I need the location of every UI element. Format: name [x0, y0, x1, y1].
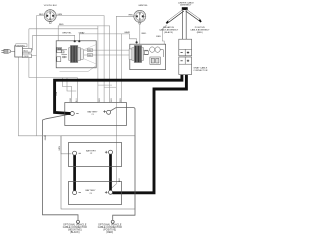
- battery B1 top labels: [70, 97, 122, 102]
- wire GRN/YEL to U1 terminal 1: [33, 35, 75, 50]
- wire battery1 positive tap to positive vehicle connector: [109, 108, 135, 221]
- wire bundle 1 down: [97, 26, 99, 103]
- negative jumper cable: [166, 10, 183, 23]
- svg-text:GRAY: GRAY: [79, 32, 86, 35]
- wire conn2 left down to battery 3 positive: [110, 16, 133, 191]
- wire RED row: [58, 26, 109, 103]
- svg-text:ASSEMBLY: ASSEMBLY: [180, 4, 192, 7]
- wire negative lug to U2: [162, 25, 166, 44]
- wire hang from gray row: [121, 34, 123, 103]
- device box U1: [56, 41, 96, 68]
- svg-text:(BLACK): (BLACK): [164, 31, 173, 34]
- battery B1 positive terminal: [107, 110, 111, 114]
- U1 terminal 2: [78, 40, 80, 42]
- svg-text:(BLACK): (BLACK): [70, 231, 80, 234]
- svg-text:BATTERY: BATTERY: [88, 110, 98, 113]
- heavy cable terminal block to battery1 negative: [55, 75, 182, 114]
- motor M2: [129, 46, 143, 63]
- battery B3 negative terminal: [73, 191, 77, 195]
- battery compartment box: [61, 136, 135, 209]
- wire conn2 down to U2: [139, 24, 141, 44]
- svg-text:GRAY CABLE: GRAY CABLE: [193, 67, 207, 70]
- svg-text:RED: RED: [39, 14, 44, 16]
- inline connector RED on lead 2: [87, 54, 92, 57]
- svg-text:GRN: GRN: [59, 146, 61, 151]
- wire under box U1: [60, 66, 97, 72]
- svg-text:RED: RED: [88, 55, 93, 57]
- heavy cable terminal block to battery3 positive: [112, 75, 186, 193]
- svg-text:GRN: GRN: [70, 97, 72, 102]
- svg-text:RED: RED: [129, 15, 134, 17]
- svg-text:GRAY: GRAY: [124, 31, 131, 34]
- battery B3 box: [69, 182, 122, 205]
- heavy cable battery2 positive to battery3 positive: [109, 154, 112, 191]
- battery B2 positive terminal: [109, 150, 113, 154]
- gray cable pair down: [183, 10, 187, 40]
- wire ladder to battery1 top: [62, 78, 76, 103]
- connector block K1: [15, 46, 23, 57]
- wire battery1 negative tap to negative vehicle connector: [43, 114, 79, 221]
- U2 terminal: [136, 41, 138, 43]
- terminal block TB1: [179, 39, 192, 56]
- U1 internal relay circuit: [57, 47, 67, 61]
- inline connector RED on lead 1: [87, 49, 92, 52]
- wire harness vertical from vehicle connector: [29, 29, 98, 103]
- svg-text:RED: RED: [156, 36, 161, 38]
- U2 internal relay circuit: [144, 47, 164, 65]
- jumper cable connector block: [182, 7, 188, 10]
- wire GRAY U1 terminal 2 to U2 terminal: [79, 34, 136, 42]
- svg-text:BLU: BLU: [24, 50, 29, 52]
- svg-text:GRN/YEL: GRN/YEL: [62, 33, 72, 35]
- vehicle plug P1: [1, 49, 14, 53]
- label chip GRN: [23, 54, 32, 58]
- svg-text:BLU: BLU: [119, 178, 121, 182]
- heavy cable battery2 negative to battery3 negative: [73, 155, 76, 191]
- connector J2 round 4-pin: [134, 10, 146, 24]
- svg-text:GRN: GRN: [57, 14, 62, 16]
- svg-text:(Blk/Wht): (Blk/Wht): [16, 44, 25, 47]
- battery B1 negative terminal: [70, 112, 74, 116]
- svg-text:RED: RED: [142, 33, 147, 35]
- svg-text:RED: RED: [59, 24, 64, 26]
- wire stub hints below heavy wire: [98, 85, 116, 87]
- terminal block TB2: [179, 57, 192, 75]
- battery B2 negative terminal: [73, 151, 77, 155]
- svg-text:CONNECTOR: CONNECTOR: [193, 70, 207, 72]
- U1 terminal 1: [74, 40, 76, 42]
- positive vehicle connector terminal: [111, 220, 114, 223]
- svg-text:(RED): (RED): [106, 232, 113, 234]
- svg-text:RED: RED: [88, 50, 93, 52]
- svg-text:BATTERY: BATTERY: [86, 189, 96, 192]
- wire conn1 left RED: [37, 16, 45, 136]
- svg-text:GRAY: GRAY: [44, 134, 47, 140]
- label chip BLU: [23, 48, 32, 52]
- positive jumper cable: [186, 10, 201, 22]
- battery B2 box: [69, 143, 122, 167]
- negative vehicle connector terminal: [77, 220, 80, 223]
- svg-text:GRN/YEL: GRN/YEL: [138, 5, 148, 7]
- motor M1: [69, 45, 96, 64]
- connector J1 round 4-pin: [44, 10, 56, 24]
- svg-text:(RED): (RED): [197, 32, 203, 34]
- battery B1 box: [65, 103, 127, 126]
- svg-text:BATTERY: BATTERY: [86, 149, 96, 152]
- wire GRN sense to battery 2 negative: [18, 57, 71, 154]
- label chip (Blk/Wht): [16, 44, 27, 48]
- svg-text:GRN: GRN: [24, 56, 29, 58]
- wire U1 to U2 motor leads: [83, 50, 131, 55]
- battery B3 positive terminal: [109, 190, 113, 194]
- svg-text:VIO/YEL BLK: VIO/YEL BLK: [44, 5, 58, 7]
- wire conn1 right to bundle: [56, 16, 104, 103]
- device box U2: [130, 44, 166, 69]
